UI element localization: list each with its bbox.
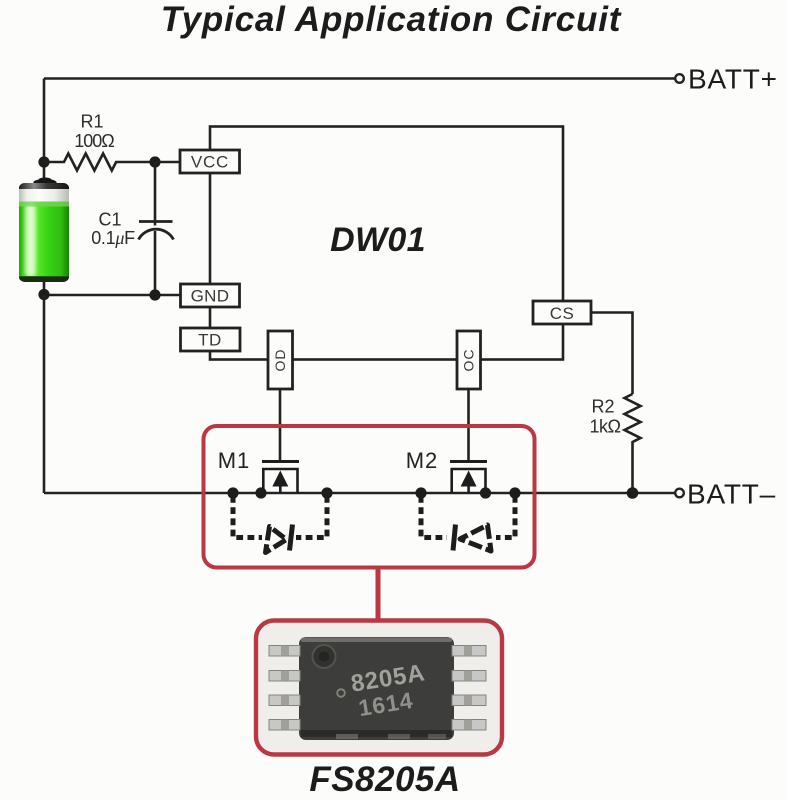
terminal BATT+ <box>675 74 684 83</box>
svg-text:OC: OC <box>461 349 477 372</box>
callout stem (red) <box>376 567 381 622</box>
svg-text:TD: TD <box>198 331 222 350</box>
chip pins 1-4 left <box>269 646 300 731</box>
svg-text:1kΩ: 1kΩ <box>590 417 621 437</box>
pin CS <box>533 301 591 324</box>
svg-text:DW01: DW01 <box>330 221 426 259</box>
svg-text:BATT+: BATT+ <box>688 64 778 95</box>
pin VCC <box>180 150 240 173</box>
capacitor C1 <box>139 162 174 295</box>
svg-text:M1: M1 <box>218 448 251 473</box>
photo frame (red) <box>256 621 502 755</box>
wire BATT+ rail down to battery positive <box>43 79 46 179</box>
svg-text:R2: R2 <box>591 397 614 417</box>
svg-text:0.1μF: 0.1μF <box>91 228 135 248</box>
resistor R2 <box>625 394 641 493</box>
body diode D2 of M2 (dashed) <box>421 496 515 551</box>
wire left drop to BATT- rail <box>43 295 46 493</box>
svg-text:FS8205A: FS8205A <box>309 760 460 799</box>
IC U1 DW01 outline <box>210 127 563 360</box>
battery BT1 (Li-ion cell) <box>19 177 69 282</box>
wire R1 to VCC pin <box>155 161 180 164</box>
svg-text:R1: R1 <box>80 112 103 132</box>
svg-text:OD: OD <box>272 349 288 372</box>
transistor M1 <box>218 448 333 499</box>
terminal BATT- <box>675 489 684 498</box>
wire BATT- rail <box>44 492 675 495</box>
svg-text:CS: CS <box>550 304 575 323</box>
pin OC <box>457 331 481 389</box>
wire OC pin to M2 gate <box>467 389 470 461</box>
node C1/GND junction <box>149 289 160 300</box>
svg-text:C1: C1 <box>98 210 121 230</box>
pin OD <box>268 331 293 389</box>
node battery positive junction <box>38 156 49 167</box>
svg-text:100Ω: 100Ω <box>74 131 114 151</box>
wire battery negative to GND pin <box>44 282 180 295</box>
svg-text:BATT–: BATT– <box>687 479 776 510</box>
chip pin-1 mold dimple <box>313 645 336 668</box>
chip photo FS8205A package body <box>299 637 454 740</box>
wire CS pin to R2 <box>591 313 633 395</box>
chip pins 5-8 right <box>452 646 486 731</box>
body diode D1 of M1 (dashed) <box>233 496 327 553</box>
wire BATT+ rail <box>44 77 675 80</box>
chip pin-1 mark dot <box>337 689 345 697</box>
node battery negative junction <box>38 289 49 300</box>
pin TD <box>181 328 241 351</box>
svg-text:Typical Application Circuit: Typical Application Circuit <box>161 0 622 39</box>
resistor R1 <box>44 154 155 171</box>
pin GND <box>181 284 240 307</box>
transistor M2 <box>406 448 521 499</box>
svg-text:M2: M2 <box>406 448 439 473</box>
FET module outline box (red) <box>204 426 535 568</box>
svg-text:GND: GND <box>191 287 230 306</box>
wire OD pin to M1 gate <box>279 389 282 461</box>
node R2/BATT- junction <box>627 487 639 499</box>
node R1/C1/VCC junction <box>149 156 160 167</box>
svg-text:VCC: VCC <box>191 153 229 172</box>
